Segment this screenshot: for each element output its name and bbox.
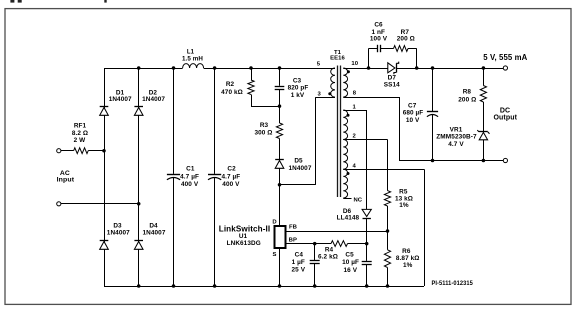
capacitor C7 bbox=[431, 66, 435, 70]
svg-text:8: 8 bbox=[353, 90, 357, 96]
cut-off caption text at top edge bbox=[10, 0, 14, 3]
svg-text:1N4007: 1N4007 bbox=[143, 229, 166, 236]
snubber C6/R7 bbox=[367, 66, 371, 70]
svg-text:820 pF: 820 pF bbox=[288, 85, 309, 92]
wire: pin 2 to R5 bbox=[343, 139, 387, 141]
wire: D5 to drain node bbox=[279, 168, 281, 226]
node dots top rail bbox=[137, 66, 141, 70]
AC input terminal (line) bbox=[57, 149, 61, 153]
svg-text:D7: D7 bbox=[388, 75, 397, 82]
svg-text:4.7 µF: 4.7 µF bbox=[221, 173, 240, 180]
svg-text:C2: C2 bbox=[227, 166, 236, 173]
wire: BP line bbox=[286, 243, 331, 245]
capacitor C1 bbox=[173, 68, 175, 174]
diode D1 bbox=[100, 106, 109, 108]
node: drain junction bbox=[278, 183, 282, 187]
wire: pin 1 to D6 bbox=[343, 110, 366, 112]
svg-text:LL4148: LL4148 bbox=[337, 214, 360, 221]
resistor R2 bbox=[249, 66, 253, 70]
svg-text:5 V, 555 mA: 5 V, 555 mA bbox=[483, 53, 527, 62]
diode D5 bbox=[279, 139, 281, 160]
capacitor C2 bbox=[214, 68, 216, 174]
svg-text:1N4007: 1N4007 bbox=[142, 96, 165, 103]
wire: RF1 to bridge bbox=[88, 150, 104, 152]
svg-text:FB: FB bbox=[289, 224, 297, 230]
svg-text:R4: R4 bbox=[325, 247, 334, 254]
svg-text:300 Ω: 300 Ω bbox=[254, 129, 272, 136]
svg-text:NC: NC bbox=[353, 197, 362, 203]
capacitor C4 bbox=[313, 242, 317, 246]
svg-text:R8: R8 bbox=[463, 88, 472, 95]
svg-text:10 V: 10 V bbox=[406, 117, 420, 124]
inductor L1 bbox=[183, 64, 204, 68]
svg-text:1N4007: 1N4007 bbox=[107, 229, 130, 236]
phase dot primary bbox=[328, 92, 331, 95]
NC stub bbox=[343, 198, 351, 200]
wire: R2/C3 bottom link bbox=[251, 106, 280, 108]
svg-text:16 V: 16 V bbox=[344, 267, 358, 274]
wire: top rail from L1 to transformer pin 5 bbox=[204, 68, 335, 70]
svg-text:R2: R2 bbox=[226, 81, 235, 88]
wire: line input to RF1 bbox=[61, 150, 74, 152]
wire: neutral to bridge bbox=[61, 203, 139, 205]
capacitor C6 bbox=[377, 45, 379, 52]
svg-text:D: D bbox=[272, 220, 276, 226]
svg-text:R5: R5 bbox=[399, 188, 408, 195]
output terminal + bbox=[503, 66, 507, 70]
svg-text:ZMM5230B-7: ZMM5230B-7 bbox=[436, 133, 477, 140]
svg-text:C3: C3 bbox=[293, 78, 302, 85]
transformer T1 primary winding (pins 5-3) bbox=[331, 68, 335, 97]
svg-text:R3: R3 bbox=[260, 122, 269, 129]
svg-text:8.87 kΩ: 8.87 kΩ bbox=[396, 255, 420, 262]
svg-text:R6: R6 bbox=[402, 248, 411, 255]
svg-text:680 µF: 680 µF bbox=[403, 110, 424, 117]
svg-text:1N4007: 1N4007 bbox=[109, 96, 132, 103]
svg-text:Output: Output bbox=[494, 114, 518, 121]
svg-text:400 V: 400 V bbox=[222, 181, 240, 188]
output terminal - bbox=[503, 158, 507, 162]
svg-text:1: 1 bbox=[353, 105, 357, 111]
diode D3 bbox=[100, 240, 109, 242]
svg-text:4.7 V: 4.7 V bbox=[448, 141, 464, 148]
wire: D1/D3 left bridge column bbox=[104, 68, 106, 286]
svg-text:1 µF: 1 µF bbox=[292, 259, 305, 266]
svg-text:Input: Input bbox=[57, 177, 75, 184]
svg-text:S: S bbox=[272, 252, 276, 258]
IC U1 LNK613DG (LinkSwitch-II) bbox=[275, 226, 286, 248]
resistor RF1 bbox=[74, 148, 89, 154]
wire: drain node to transformer pin 3 bbox=[280, 184, 316, 186]
svg-text:C4: C4 bbox=[295, 252, 304, 259]
wire: secondary rail pin10 to D7 bbox=[343, 68, 388, 70]
wire: top DC bus rail bbox=[104, 68, 183, 70]
wire: FB line bbox=[286, 231, 388, 233]
wire: D2/D4 bridge column bbox=[138, 68, 140, 286]
svg-text:4.7 µF: 4.7 µF bbox=[180, 173, 199, 180]
svg-text:10: 10 bbox=[351, 61, 358, 67]
svg-text:3: 3 bbox=[318, 91, 322, 97]
svg-text:1 kV: 1 kV bbox=[291, 92, 305, 99]
phase dot bias pin 1 bbox=[347, 114, 350, 117]
svg-text:10 µF: 10 µF bbox=[342, 259, 359, 266]
svg-text:100 V: 100 V bbox=[370, 35, 388, 42]
capacitor C5 bbox=[365, 242, 369, 246]
svg-text:200 Ω: 200 Ω bbox=[397, 35, 415, 42]
wire: bottom primary return rail bbox=[104, 286, 424, 288]
diode D4 bbox=[134, 240, 143, 242]
node: neutral/bridge junction bbox=[137, 202, 141, 206]
svg-text:2 W: 2 W bbox=[74, 137, 87, 144]
svg-text:LNK613DG: LNK613DG bbox=[227, 240, 261, 247]
T1 secondary output winding (pins 10-8) bbox=[343, 68, 347, 97]
svg-text:1%: 1% bbox=[399, 202, 409, 209]
svg-text:6.2 kΩ: 6.2 kΩ bbox=[318, 254, 338, 261]
svg-text:C5: C5 bbox=[345, 252, 354, 259]
diode D2 bbox=[134, 106, 143, 108]
wire: D7 cathode to output terminal bbox=[396, 68, 503, 70]
AC input terminal (neutral) bbox=[57, 202, 61, 206]
wire: source pin to ground bbox=[279, 248, 281, 286]
T1 core bbox=[337, 66, 339, 198]
svg-text:400 V: 400 V bbox=[181, 181, 199, 188]
resistor R3 bbox=[279, 106, 281, 123]
resistor R5 bbox=[384, 191, 390, 206]
node: RF1/bridge junction bbox=[102, 149, 106, 153]
wire: pin 8 return bbox=[343, 97, 399, 99]
resistor R6 bbox=[387, 231, 389, 250]
zener VR1 bbox=[479, 131, 488, 133]
svg-text:D5: D5 bbox=[294, 158, 303, 165]
svg-text:1N4007: 1N4007 bbox=[289, 165, 312, 172]
svg-text:SS14: SS14 bbox=[384, 82, 400, 89]
resistor R7 bbox=[394, 46, 409, 52]
resistor R8 bbox=[482, 66, 486, 70]
T1 bias winding (pins 1-2-4-NC) bbox=[343, 110, 347, 140]
svg-text:VR1: VR1 bbox=[450, 126, 463, 133]
wire: pin 4 to ground bbox=[343, 169, 424, 171]
svg-text:5: 5 bbox=[317, 62, 321, 68]
diode D6 LL4148 bbox=[362, 209, 371, 216]
node dots bottom rail bbox=[137, 284, 141, 288]
svg-text:1.5 mH: 1.5 mH bbox=[182, 55, 203, 62]
capacitor C3 bbox=[278, 66, 282, 70]
svg-text:1%: 1% bbox=[403, 262, 413, 269]
svg-text:RF1: RF1 bbox=[74, 123, 87, 130]
svg-text:C6: C6 bbox=[374, 22, 383, 29]
svg-text:470 kΩ: 470 kΩ bbox=[221, 89, 243, 96]
svg-text:EE16: EE16 bbox=[330, 55, 345, 61]
svg-text:BP: BP bbox=[289, 237, 297, 243]
phase dot bias pin 4 bbox=[347, 172, 350, 175]
diode D7 SS14 bbox=[388, 63, 395, 73]
svg-text:2: 2 bbox=[353, 133, 357, 139]
phase dot secondary bbox=[347, 70, 350, 73]
resistor R4 bbox=[331, 241, 348, 247]
svg-text:C1: C1 bbox=[186, 166, 195, 173]
svg-text:4: 4 bbox=[353, 163, 357, 169]
svg-text:PI-5111-012315: PI-5111-012315 bbox=[431, 280, 473, 287]
svg-text:25 V: 25 V bbox=[292, 267, 306, 274]
svg-text:200 Ω: 200 Ω bbox=[458, 97, 476, 104]
